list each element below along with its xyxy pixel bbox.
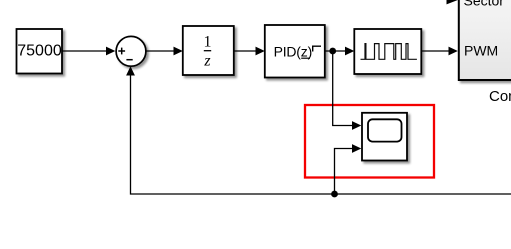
PWM reference generator block (pulse icon) [354, 29, 421, 74]
wire: pulse block to PWM port [421, 50, 449, 52]
wire: sum to unit delay [146, 50, 175, 52]
arrowhead into Sector port (clipped at top) [447, 0, 458, 4]
svg-text:PID(z): PID(z) [274, 43, 312, 59]
svg-text:1: 1 [204, 34, 212, 51]
feedback wire: bottom horizontal to right edge [131, 68, 511, 195]
junction node on feedback line [331, 191, 338, 198]
junction node after PID [329, 48, 336, 55]
discrete PID controller block PID(z) [265, 25, 325, 78]
scope block [362, 113, 407, 161]
svg-text:75000: 75000 [17, 43, 62, 60]
constant block "75000" [17, 29, 63, 74]
sum junction [116, 36, 146, 66]
unit delay block 1/z [183, 26, 234, 75]
svg-text:PWM: PWM [464, 42, 498, 58]
svg-text:Commutation: Commutation [489, 88, 511, 105]
commutation subsystem block (clipped top/right) [459, 0, 511, 80]
svg-text:z: z [203, 53, 211, 70]
red highlight rectangle [305, 105, 434, 178]
wire: branch from feedback up to scope input 2 [335, 149, 354, 195]
arrowhead into sum bottom [126, 66, 135, 75]
wire: unit delay to PID [234, 50, 257, 52]
wire: constant to sum [62, 50, 107, 52]
wire: branch from PID output down to scope input 1 [333, 51, 353, 126]
svg-text:Sector: Sector [464, 0, 505, 9]
wire: PID to PWM ref generator (with branch) [325, 50, 346, 52]
